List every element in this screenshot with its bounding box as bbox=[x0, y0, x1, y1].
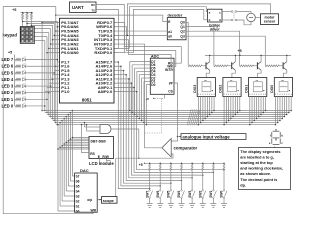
svg-text:Q1: Q1 bbox=[180, 25, 185, 29]
svg-text:UART: UART bbox=[72, 5, 84, 10]
svg-text:Q0: Q0 bbox=[180, 21, 185, 25]
svg-text:b4: b4 bbox=[76, 189, 80, 193]
svg-text:LED 6: LED 6 bbox=[2, 64, 14, 69]
svg-text:b7: b7 bbox=[76, 174, 80, 178]
svg-text:DAC: DAC bbox=[80, 168, 89, 173]
svg-text:SW0: SW0 bbox=[220, 190, 224, 197]
svg-text:+5: +5 bbox=[146, 97, 150, 101]
svg-text:RS: RS bbox=[90, 152, 95, 156]
svg-text:comparator: comparator bbox=[174, 145, 198, 150]
svg-text:RX: RX bbox=[91, 3, 95, 7]
svg-text:b2: b2 bbox=[76, 199, 80, 203]
svg-text:and working clockwise,: and working clockwise, bbox=[240, 167, 283, 171]
svg-text:+5: +5 bbox=[12, 8, 16, 12]
svg-text:P1.0: P1.0 bbox=[61, 89, 70, 94]
svg-text:LED 0: LED 0 bbox=[2, 103, 14, 108]
svg-text:a0: a0 bbox=[168, 35, 172, 39]
svg-text:DIG3: DIG3 bbox=[193, 85, 197, 93]
svg-text:+5: +5 bbox=[8, 51, 12, 55]
svg-text:LED 3: LED 3 bbox=[2, 84, 14, 89]
svg-text:SW6: SW6 bbox=[156, 190, 160, 197]
svg-text:A: A bbox=[26, 39, 28, 43]
svg-text:SW5: SW5 bbox=[167, 190, 171, 197]
svg-text:CS: CS bbox=[168, 90, 173, 94]
svg-text:LCD module: LCD module bbox=[89, 161, 114, 166]
svg-text:B: B bbox=[30, 39, 32, 43]
svg-text:+5: +5 bbox=[139, 163, 143, 167]
svg-text:LED 7: LED 7 bbox=[2, 57, 14, 62]
svg-text:RXD/P3.0: RXD/P3.0 bbox=[94, 50, 113, 55]
svg-text:analogue input voltage: analogue input voltage bbox=[182, 134, 230, 139]
svg-text:scope: scope bbox=[103, 199, 114, 203]
svg-text:R/W: R/W bbox=[102, 155, 109, 159]
svg-text:LED 1: LED 1 bbox=[2, 97, 14, 102]
svg-text:D0: D0 bbox=[151, 83, 155, 87]
svg-text:DB7-DB0: DB7-DB0 bbox=[91, 140, 106, 144]
svg-text:b6: b6 bbox=[76, 179, 80, 183]
svg-text:b5: b5 bbox=[76, 184, 80, 188]
svg-text:keypad: keypad bbox=[3, 32, 18, 37]
svg-text:Q3: Q3 bbox=[180, 35, 185, 39]
svg-text:motor: motor bbox=[265, 15, 276, 19]
svg-text:b3: b3 bbox=[76, 194, 80, 198]
svg-text:SW3: SW3 bbox=[188, 190, 192, 197]
svg-text:o/p: o/p bbox=[87, 198, 92, 202]
svg-text:DIG1: DIG1 bbox=[244, 85, 248, 93]
svg-text:DIG0: DIG0 bbox=[270, 85, 274, 93]
svg-text:b: b bbox=[209, 18, 211, 22]
svg-text:P0.0/AN0: P0.0/AN0 bbox=[61, 50, 79, 55]
svg-text:a1: a1 bbox=[168, 30, 172, 34]
svg-text:LED 2: LED 2 bbox=[2, 90, 14, 95]
svg-text:DIG2: DIG2 bbox=[219, 85, 223, 93]
svg-text:+5: +5 bbox=[238, 49, 242, 53]
svg-text:SW7: SW7 bbox=[145, 190, 149, 197]
svg-text:dp.: dp. bbox=[240, 183, 246, 187]
svg-text:The decimal point is: The decimal point is bbox=[240, 178, 277, 182]
svg-text:SW1: SW1 bbox=[209, 190, 213, 197]
svg-text:SW4: SW4 bbox=[177, 190, 181, 197]
svg-text:sensor: sensor bbox=[264, 20, 276, 24]
svg-text:WR: WR bbox=[91, 208, 97, 212]
svg-text:d: d bbox=[219, 18, 221, 22]
svg-text:are labelled a to g,: are labelled a to g, bbox=[240, 156, 274, 160]
svg-text:LED 4: LED 4 bbox=[2, 77, 14, 82]
svg-text:b1: b1 bbox=[76, 204, 80, 208]
svg-text:as shown above.: as shown above. bbox=[240, 172, 271, 176]
svg-text:A8/P2.0: A8/P2.0 bbox=[98, 89, 113, 94]
svg-text:Q2: Q2 bbox=[180, 30, 185, 34]
svg-text:decoder: decoder bbox=[168, 14, 183, 18]
svg-text:ADC: ADC bbox=[151, 54, 159, 58]
svg-text:The display segments: The display segments bbox=[240, 150, 280, 154]
svg-text:TX: TX bbox=[91, 8, 95, 12]
svg-text:8051: 8051 bbox=[82, 98, 92, 103]
svg-text:starting at the top: starting at the top bbox=[240, 161, 273, 165]
svg-text:SW2: SW2 bbox=[198, 190, 202, 197]
svg-text:driver: driver bbox=[210, 28, 221, 32]
svg-text:f: f bbox=[270, 134, 271, 138]
svg-text:LED 5: LED 5 bbox=[2, 70, 14, 75]
svg-text:b0: b0 bbox=[76, 209, 80, 213]
